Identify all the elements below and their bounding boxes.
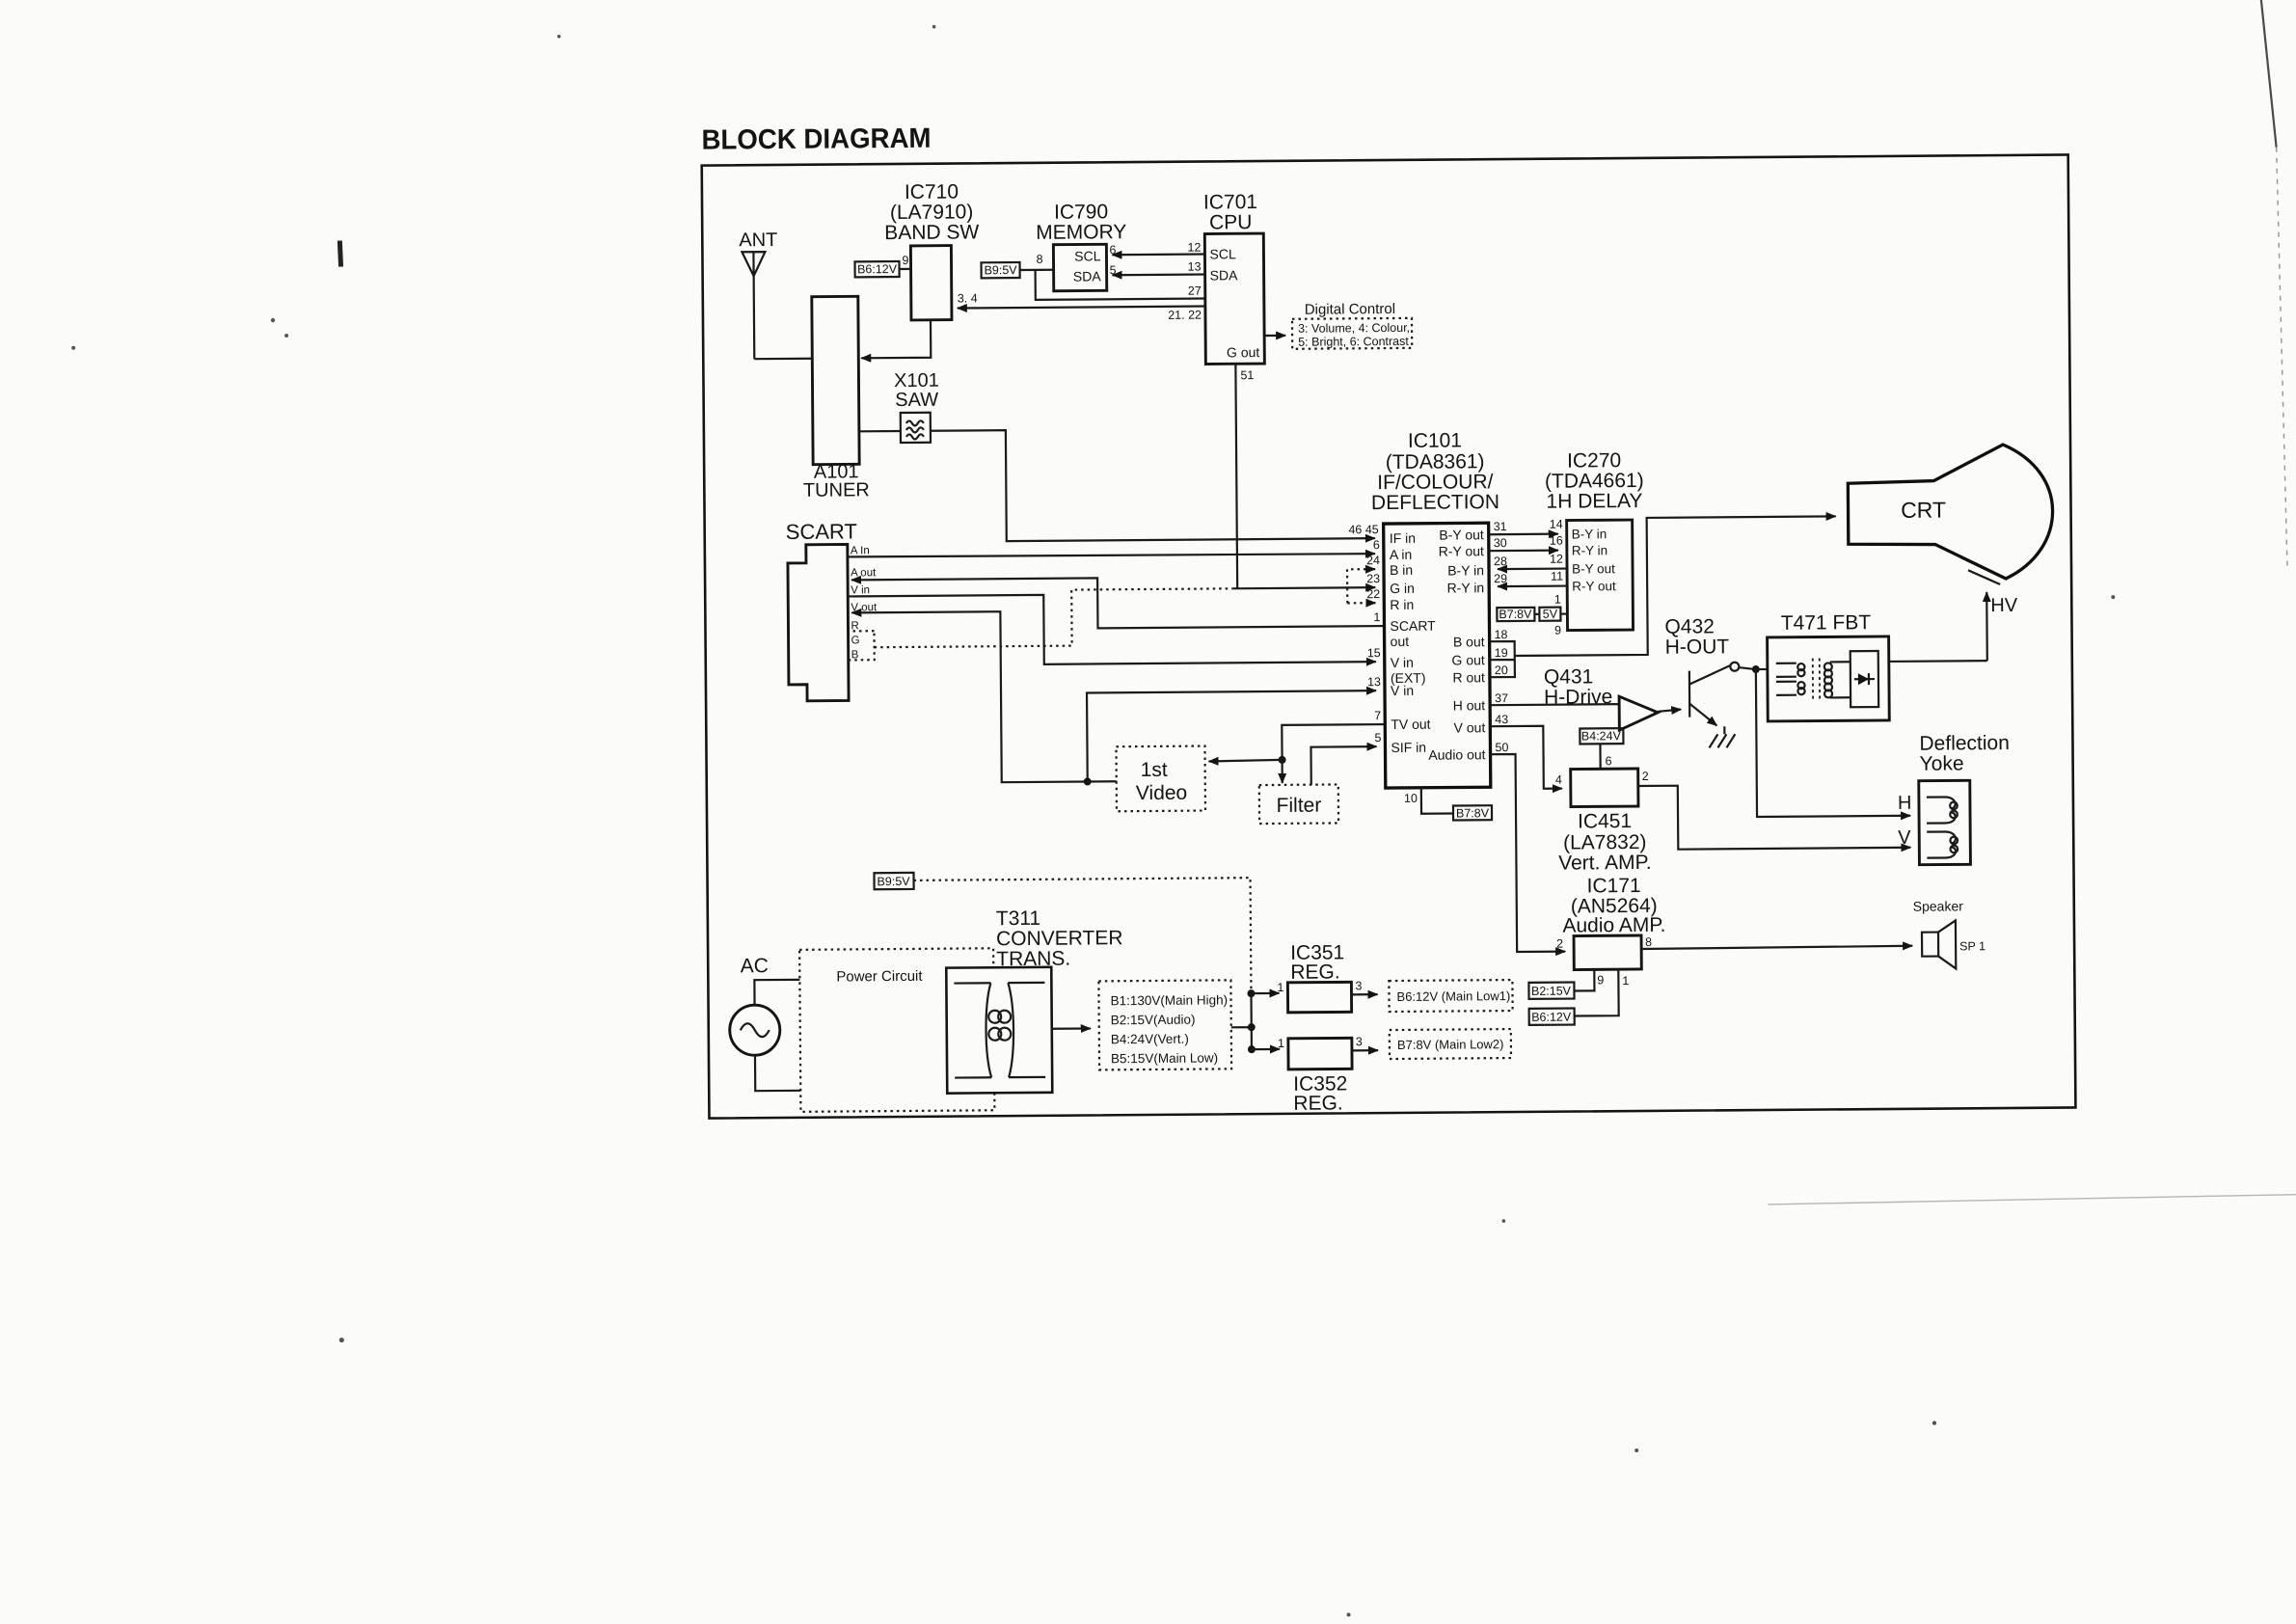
svg-text:IC171: IC171 [1587,875,1641,897]
svg-text:9: 9 [1554,624,1561,637]
svg-text:Q432: Q432 [1664,615,1715,637]
svg-text:SCART: SCART [786,519,857,544]
T471 core dashed [1813,659,1820,699]
svg-text:13: 13 [1188,260,1202,274]
B supply list dotted box [1098,980,1231,1069]
supply label B6:12V box [1529,1009,1575,1025]
wire IC701 pins 21,22 to IC710 pins 3,4 [958,307,1205,309]
svg-text:CONVERTER: CONVERTER [996,927,1123,950]
svg-text:5V: 5V [1543,608,1558,621]
deflection yoke box [1919,780,1971,864]
wire IC101 V out pin 43 to IC451 pin 4 [1490,726,1562,790]
svg-text:Power Circuit: Power Circuit [836,968,923,986]
diode symbol [1854,678,1875,680]
svg-text:8: 8 [1645,935,1652,949]
wire IC701 SDA to IC790 pin 5 [1113,273,1205,276]
svg-text:31: 31 [1494,520,1507,533]
flyback transformer T471 box [1768,636,1890,721]
wire IC270 R-Y out 11 to IC101 R-Y in 29 [1498,584,1567,587]
svg-text:SCART: SCART [1390,618,1436,634]
wire B-list to regulators junction [1230,993,1251,1049]
svg-text:V out: V out [1454,719,1486,735]
svg-text:R-Y in: R-Y in [1446,580,1484,595]
svg-text:3: Volume, 4: Colour,: 3: Volume, 4: Colour, [1298,321,1410,336]
Filter dotted box [1259,784,1338,824]
wire junction to IC352 pin 1 [1252,1048,1280,1050]
svg-text:3. 4: 3. 4 [958,291,978,305]
svg-text:SCL: SCL [1209,246,1236,261]
converter transformer T311 box [946,967,1052,1094]
ground below Q432 emitter [1709,726,1735,747]
svg-text:REG.: REG. [1290,961,1340,983]
wire IC710 to tuner [861,320,931,359]
svg-text:1st: 1st [1141,759,1168,781]
svg-text:B4:24V(Vert.): B4:24V(Vert.) [1111,1032,1189,1047]
svg-text:12: 12 [1550,553,1563,566]
wire IC171 pin 8 to speaker SP1 [1641,946,1912,949]
svg-text:B-Y in: B-Y in [1572,527,1607,541]
scan artifact page edge line [2260,0,2276,148]
node Q432 collector junction [1752,665,1760,673]
svg-text:A In: A In [851,545,870,556]
wire bracket to CRT [1514,516,1837,656]
wire B9:5V branch to IC701 pin 27 [1036,269,1205,300]
svg-text:15: 15 [1367,646,1381,660]
wire antenna to tuner [754,358,812,361]
svg-text:R-Y in: R-Y in [1572,543,1607,557]
svg-text:G in: G in [1390,581,1415,596]
wire T311 to B-list [1052,1027,1091,1030]
wire Filter to IC101 SIF in pin 5 [1310,746,1376,785]
scan artifact faint line bottom right [1768,1195,2296,1204]
supply label 5V box [1539,608,1560,621]
supply label B4:24V box [1580,728,1623,744]
wire junction to IC101 V in pin 13 [1087,690,1377,781]
svg-text:22: 22 [1366,587,1380,601]
svg-text:Q431: Q431 [1544,665,1594,688]
svg-text:B-Y out: B-Y out [1572,561,1615,576]
svg-text:SP 1: SP 1 [1959,939,1985,953]
B6:12V (Main Low1) dotted box [1389,980,1512,1012]
wire IC701 SCL to IC790 pin 6 [1112,253,1204,256]
svg-text:SAW: SAW [895,390,938,411]
svg-text:Vert. AMP.: Vert. AMP. [1558,852,1652,875]
SCART connector [788,544,849,700]
svg-text:B6:12V (Main Low1): B6:12V (Main Low1) [1396,988,1510,1004]
1H delay IC270 box [1567,520,1634,631]
svg-text:1: 1 [1277,981,1283,994]
svg-text:R-Y out: R-Y out [1572,579,1616,593]
svg-text:T311: T311 [996,907,1040,930]
svg-text:B-Y out: B-Y out [1439,527,1484,542]
svg-text:IC710: IC710 [905,181,959,203]
svg-text:G: G [851,635,860,646]
svg-text:9: 9 [902,254,908,267]
svg-text:51: 51 [1240,368,1254,382]
supply label B7:8V box [1453,805,1492,820]
yoke V coil [1927,831,1956,857]
svg-text:SDA: SDA [1073,268,1102,284]
wire IC171 pin 1 to B6:12V [1574,969,1618,1015]
wire Q431 to Q432 base [1658,710,1681,712]
supply label B2:15V box [1528,983,1574,999]
wire IC101 R-Y out 30 to IC270 R-Y in 16 [1489,550,1558,553]
supply label B6:12V box [855,261,900,277]
wire SCART A In to IC101 A in pin 6 [848,553,1375,557]
svg-text:out: out [1391,634,1410,649]
svg-text:5: 5 [1374,731,1381,744]
supply label B9:5V box [874,873,913,889]
svg-text:1: 1 [1622,974,1629,988]
wire B7:8V to 5V [1534,613,1539,615]
digital control dotted box [1292,318,1412,349]
wire FBT to HV [1889,660,1987,663]
memory IC790 box [1053,244,1106,290]
regulator IC351 box [1287,982,1351,1013]
svg-text:21. 22: 21. 22 [1168,309,1202,322]
svg-text:16: 16 [1550,534,1563,548]
svg-text:1: 1 [1278,1037,1284,1050]
svg-text:REG.: REG. [1293,1092,1343,1114]
svg-text:12: 12 [1187,241,1201,255]
wire IC451 pin 2 to yoke V [1638,784,1911,850]
supply label B9:5V box [982,262,1020,278]
svg-text:Deflection: Deflection [1919,732,2010,755]
wire junction to IC351 pin 1 [1251,992,1279,994]
audio amp IC171 box [1574,935,1641,970]
svg-text:TV out: TV out [1391,717,1430,732]
svg-text:R out: R out [1452,669,1485,685]
svg-text:SIF in: SIF in [1391,740,1426,755]
svg-text:13: 13 [1367,675,1381,689]
SAW filter X101 box [901,413,931,443]
transistor Q432 [1688,671,1691,717]
wire IC701 G out pin 51 down to IC101 G in [1235,364,1237,588]
svg-text:43: 43 [1495,713,1508,726]
supply label B7:8V box at IC270 [1497,608,1534,621]
wire IC352 pin 3 to B7 output [1352,1049,1378,1051]
svg-text:B7:8V (Main Low2): B7:8V (Main Low2) [1397,1037,1504,1052]
svg-text:B4:24V: B4:24V [1581,729,1622,743]
svg-text:IC701: IC701 [1203,191,1257,213]
svg-text:H: H [1898,793,1912,814]
svg-text:1: 1 [1373,610,1380,624]
svg-text:H out: H out [1453,697,1486,713]
cpu IC701 box [1204,233,1264,364]
wire B9:5V to IC790 pin 8 [1020,269,1054,271]
T471 primary winding [1776,663,1796,695]
T471 secondary winding [1824,663,1832,670]
svg-text:20: 20 [1495,663,1508,677]
RGB out bracket pins 18,19,20 [1490,641,1515,677]
svg-text:4: 4 [1555,773,1562,787]
svg-text:19: 19 [1495,646,1508,660]
svg-text:A in: A in [1390,547,1412,562]
wire SAW to IC101 IF in [931,427,1375,542]
wire dotted SCART G/B to IC101 G in [874,588,1232,647]
svg-text:B9:5V: B9:5V [877,875,910,888]
vertical amp IC451 box [1571,769,1638,807]
wire IC101 H out pin 37 to Q431 [1490,704,1619,705]
svg-text:BLOCK DIAGRAM: BLOCK DIAGRAM [701,123,931,156]
svg-text:3: 3 [1356,1035,1363,1048]
svg-text:B9:5V: B9:5V [984,263,1017,277]
HV arrow to CRT [1985,592,1988,661]
svg-text:HV: HV [1990,595,2018,616]
node junction TV out [1279,756,1286,764]
svg-text:23: 23 [1366,572,1380,585]
wire AC to power circuit bottom [755,1055,800,1091]
regulator IC352 box [1288,1038,1352,1069]
speaker SP1 symbol [1922,933,1938,957]
svg-text:6: 6 [1373,538,1380,552]
svg-text:CRT: CRT [1901,497,1946,522]
svg-text:CPU: CPU [1209,211,1253,233]
svg-text:IC270: IC270 [1567,449,1621,472]
H-drive amp Q431 triangle [1619,696,1658,730]
wire Q432 collector to junction [1740,667,1756,669]
svg-text:27: 27 [1188,284,1202,298]
wire junction down to Filter [1281,760,1283,783]
wire SCART V in to IC101 V in (EXT) pin 15 [848,592,1376,665]
wire 1st Video to SCART V out [851,610,1087,783]
CRT tube [1848,445,2053,581]
svg-text:IF in: IF in [1390,530,1416,546]
wire IC101 SCART out pin 1 to SCART A out [851,576,1384,630]
wire dotted B9:5V to regulator junction [914,878,1252,993]
svg-text:B out: B out [1453,634,1485,649]
svg-text:7: 7 [1374,709,1381,722]
svg-text:Filter: Filter [1277,795,1322,817]
svg-text:BAND SW: BAND SW [884,221,979,244]
svg-text:8: 8 [1036,253,1042,266]
svg-text:B1:130V(Main High): B1:130V(Main High) [1110,992,1228,1008]
svg-text:3: 3 [1355,979,1362,992]
svg-text:2: 2 [1556,937,1563,951]
wire IC701 G to IC101 G in pin 23 [1232,587,1375,588]
power circuit dotted box [799,948,994,1112]
svg-text:A out: A out [851,567,877,579]
svg-text:30: 30 [1494,536,1507,550]
svg-text:V in: V in [851,584,870,596]
IF/colour/deflection IC101 box [1384,523,1491,788]
wire tuner to SAW [859,430,901,433]
wire IC101 TV out pin 7 to junction [1282,724,1385,760]
svg-text:G out: G out [1227,344,1259,360]
svg-text:14: 14 [1550,518,1563,531]
svg-text:28: 28 [1494,555,1507,568]
svg-text:10: 10 [1404,792,1418,805]
svg-text:T471 FBT: T471 FBT [1781,611,1872,635]
T471 HV diode box [1850,651,1878,707]
svg-text:B in: B in [1390,562,1413,578]
svg-text:MEMORY: MEMORY [1036,221,1126,244]
svg-text:B-Y in: B-Y in [1447,562,1484,578]
band switch IC710 box [910,246,952,320]
svg-text:G out: G out [1451,652,1484,667]
wire dotted bracket to IC101 R in pin 22 [1347,602,1367,604]
1st Video dotted box [1116,746,1205,812]
wire junction to T471 FBT [1756,668,1768,670]
T311 windings [954,983,1045,1078]
svg-text:X101: X101 [894,370,939,392]
wire IC351 pin 3 to B6 output [1351,993,1377,995]
svg-text:6: 6 [1606,754,1612,768]
wire B6:12V to IC710 pin 9 [900,268,911,270]
wire 5V to IC270 pin 1 [1560,612,1567,614]
AC source circle [730,1005,780,1055]
svg-text:2: 2 [1642,770,1649,783]
wire IC101 Audio out pin 50 to IC171 pin 2 [1491,754,1566,953]
svg-text:R in: R in [1390,597,1414,612]
node junction at IC352 input [1248,1045,1256,1053]
svg-text:Video: Video [1136,782,1188,804]
svg-text:Audio AMP.: Audio AMP. [1562,914,1665,937]
svg-text:B5:15V(Main Low): B5:15V(Main Low) [1111,1050,1218,1066]
svg-text:29: 29 [1494,572,1507,585]
svg-text:V: V [1898,827,1911,849]
svg-text:ANT: ANT [739,230,777,251]
svg-text:SCL: SCL [1074,248,1101,263]
yoke H coil [1927,797,1956,823]
svg-text:SDA: SDA [1210,267,1239,283]
svg-text:B7:8V: B7:8V [1499,608,1532,621]
node junction at IC351 input [1247,989,1255,997]
wire IC270 B-Y out 12 to IC101 B-Y in 28 [1498,567,1567,570]
svg-text:Yoke: Yoke [1920,752,1964,774]
svg-text:R-Y out: R-Y out [1439,543,1484,558]
svg-text:Digital Control: Digital Control [1305,301,1395,318]
svg-text:B6:12V: B6:12V [857,262,898,276]
svg-text:IC101: IC101 [1408,429,1462,451]
svg-text:V in: V in [1391,655,1414,670]
svg-text:1H DELAY: 1H DELAY [1546,490,1642,513]
svg-text:B2:15V(Audio): B2:15V(Audio) [1111,1013,1196,1028]
svg-text:5: Bright, 6: Contrast: 5: Bright, 6: Contrast [1298,335,1409,349]
svg-text:IC790: IC790 [1054,201,1108,223]
svg-text:B6:12V: B6:12V [1531,1011,1572,1024]
wire IC701 to digital control [1264,335,1285,337]
wire IC101 B-Y out 31 to IC270 B-Y in 14 [1489,533,1558,536]
svg-text:IC451: IC451 [1578,810,1632,832]
svg-text:24: 24 [1366,554,1380,567]
wire Q432 junction to yoke H [1756,668,1910,817]
outer border frame [702,154,2076,1118]
svg-text:1: 1 [1554,593,1561,607]
svg-text:B7:8V: B7:8V [1456,806,1490,820]
scan artifact stray mark [339,241,340,267]
svg-text:37: 37 [1495,691,1508,705]
svg-text:TUNER: TUNER [803,479,870,501]
svg-text:H-OUT: H-OUT [1665,636,1730,659]
B7:8V (Main Low2) dotted box [1390,1029,1511,1059]
node junction V out / V in / 1st Video [1084,777,1092,785]
svg-text:11: 11 [1551,570,1563,583]
wire junction to 1st Video [1209,760,1283,762]
wire IC171 pin 9 to B2:15V [1574,969,1594,990]
svg-text:Audio out: Audio out [1428,746,1485,762]
wire AC to power circuit top [754,980,799,1005]
svg-text:DEFLECTION: DEFLECTION [1371,491,1499,514]
wire pin 10 to B7:8V [1421,788,1453,814]
wire B4:24V to IC451 pin 6 [1599,744,1601,769]
svg-text:9: 9 [1597,973,1604,987]
svg-text:18: 18 [1495,628,1508,641]
svg-text:46 45: 46 45 [1348,523,1378,536]
svg-text:V in: V in [1391,683,1414,698]
svg-text:B2:15V: B2:15V [1531,985,1572,998]
antenna symbol [742,252,766,359]
wire junction to 1st Video [1088,780,1117,782]
svg-text:AC: AC [741,955,769,977]
svg-text:Speaker: Speaker [1913,898,1964,913]
tuner A101 box [812,296,859,464]
wire dotted bracket to IC101 B in pin 24 [1347,569,1367,603]
CRT anode tick [1968,570,2000,584]
node junction mid [1248,1023,1256,1031]
SCART RGB dotted box [849,631,875,660]
svg-text:50: 50 [1495,741,1508,754]
